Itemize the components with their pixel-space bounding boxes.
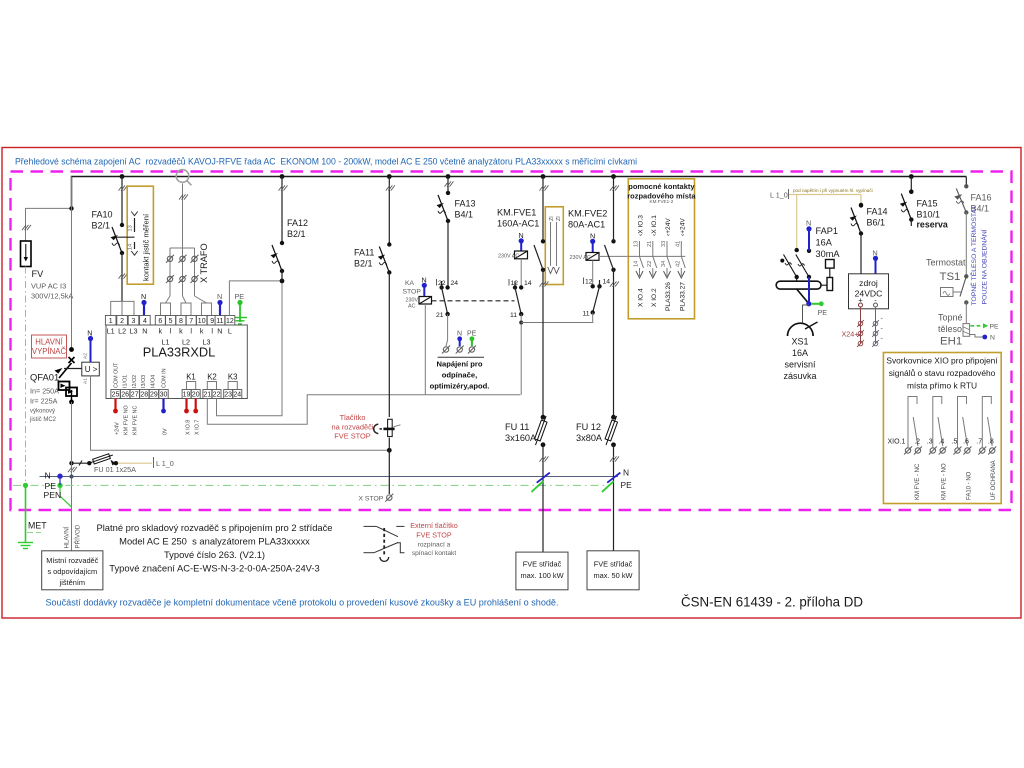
svg-text:UF OCHRANA: UF OCHRANA (991, 460, 997, 500)
wire terminal 12 voltage tap (229, 279, 284, 316)
svg-text:.3: .3 (927, 439, 933, 446)
svg-text:Topné: Topné (938, 313, 963, 323)
breaker FA16 (954, 177, 968, 277)
svg-text:FU 11: FU 11 (505, 422, 529, 432)
svg-text:‹X IO.3: ‹X IO.3 (638, 215, 645, 236)
svg-text:+24V: +24V (114, 422, 120, 435)
svg-text:FVE střídač: FVE střídač (594, 560, 633, 569)
XIO contact pair 5-6 (958, 397, 968, 448)
svg-text:KM FVE NO: KM FVE NO (124, 405, 130, 435)
measuring point circle (176, 170, 191, 186)
svg-text:28: 28 (140, 392, 148, 399)
XIO contact pair 7-8 (982, 397, 992, 448)
svg-text:U >: U > (85, 365, 98, 374)
svg-text:Model AC E 250 s analyzátorem: Model AC E 250 s analyzátorem PLA33xxxxx (119, 536, 310, 547)
svg-text:.2: .2 (914, 439, 920, 446)
wire FA11 to stop button (388, 273, 390, 418)
svg-text:N: N (422, 276, 427, 285)
svg-text:Přehledové schéma zapojení AC: Přehledové schéma zapojení AC rozvaděčů … (15, 157, 637, 168)
svg-text:FA11: FA11 (354, 248, 374, 258)
svg-text:230V AC: 230V AC (570, 255, 591, 261)
svg-text:X STOP: X STOP (359, 496, 384, 503)
svg-text:PE: PE (467, 331, 477, 338)
svg-text:7: 7 (189, 318, 193, 325)
svg-text:A1: A1 (83, 378, 89, 384)
svg-text:FA10: FA10 (92, 210, 113, 220)
svg-text:16A: 16A (816, 238, 833, 248)
svg-text:VUP AC I3: VUP AC I3 (31, 282, 66, 291)
svg-text:.8: .8 (988, 439, 994, 446)
svg-text:EH1: EH1 (940, 336, 962, 348)
svg-text:L 1_0: L 1_0 (770, 191, 788, 200)
svg-text:9: 9 (210, 318, 214, 325)
L1_0 net feed (770, 188, 873, 250)
svg-text:QFA01: QFA01 (30, 372, 59, 383)
svg-text:rozpínací a: rozpínací a (418, 542, 451, 549)
svg-text:4: 4 (143, 318, 147, 325)
contactor KM.FVE2 main contact (605, 177, 620, 418)
svg-text:FA15: FA15 (917, 199, 938, 209)
svg-text:FU 12: FU 12 (576, 422, 601, 432)
terminal numbers row bottom (112, 392, 242, 399)
svg-text:B2/1: B2/1 (287, 229, 306, 239)
svg-text:22: 22 (438, 280, 446, 287)
svg-text:Tlačítko: Tlačítko (340, 413, 366, 422)
svg-text:FA10 - NO: FA10 - NO (966, 471, 972, 500)
FA14 label (867, 207, 888, 228)
svg-text:N: N (217, 327, 222, 336)
svg-text:L1: L1 (107, 327, 115, 336)
analyzer PLA33RXDL body (106, 325, 247, 399)
svg-text:42: 42 (675, 261, 681, 267)
cable fuse FU 01 (68, 453, 136, 474)
analyzer IO terminal names rotated (114, 362, 168, 388)
svg-text:X IO.8: X IO.8 (185, 420, 191, 435)
N tap to inverter 1 (537, 473, 550, 483)
svg-text:těleso: těleso (938, 324, 962, 334)
N terminal stub at terminal 11 (217, 292, 223, 316)
junction at stop chain (387, 438, 392, 495)
svg-text:Zl: Zl (549, 216, 555, 221)
PEN split (44, 479, 72, 507)
svg-text:L3: L3 (130, 327, 138, 336)
interlock box (545, 207, 563, 285)
kontakt jistic mereni box (117, 186, 154, 284)
type description text (96, 522, 332, 574)
svg-text:Místní rozvaděč: Místní rozvaděč (46, 556, 98, 565)
title text (15, 157, 637, 168)
svg-text:Ir= 225A: Ir= 225A (30, 397, 58, 406)
svg-text:In= 250A: In= 250A (30, 387, 59, 396)
contactor KM.FVE1 coil (497, 208, 539, 288)
FA10 label (92, 210, 113, 231)
breaker FA14 (850, 203, 864, 274)
svg-text:N: N (45, 471, 51, 481)
FA11 label (354, 248, 374, 269)
X24 terminal strip (842, 307, 884, 347)
heating element EH1 (938, 303, 999, 348)
svg-text:12: 12 (511, 280, 519, 287)
svg-text:X TRAFO: X TRAFO (199, 243, 209, 283)
svg-text:‹+24V: ‹+24V (679, 218, 686, 236)
X IO.7 stub terminal 20 (193, 399, 198, 414)
svg-text:Externí tlačítko: Externí tlačítko (410, 521, 458, 530)
svg-text:HLAVNÍ: HLAVNÍ (64, 526, 71, 548)
svg-text:11: 11 (216, 318, 223, 325)
KM.FVE1 aux contact 12-11 (509, 279, 532, 395)
aux contact column +24V PLA33.26 (661, 218, 672, 311)
HLAVNI PRIVOD labels (64, 524, 82, 548)
FA12 label (287, 218, 308, 239)
svg-text:K3: K3 (228, 373, 238, 382)
svg-text:ČSN-EN 61439 - 2. příloha DD: ČSN-EN 61439 - 2. příloha DD (681, 595, 863, 610)
stop pushbutton on panel (374, 419, 401, 436)
svg-text:B6/1: B6/1 (867, 218, 886, 228)
svg-text:K2: K2 (207, 373, 217, 382)
svg-text:‹+24V: ‹+24V (665, 218, 672, 236)
svg-text:s odpovídajícm: s odpovídajícm (47, 567, 97, 576)
FA15 label (917, 199, 948, 230)
XIO terminals (904, 447, 996, 455)
svg-text:33: 33 (661, 241, 667, 247)
svg-text:.7: .7 (976, 439, 982, 446)
heater circuit note rotated (969, 205, 989, 305)
svg-text:pomocné kontakty: pomocné kontakty (628, 182, 695, 191)
svg-text:21: 21 (436, 312, 444, 319)
svg-text:spínací kontakt: spínací kontakt (412, 550, 457, 557)
FAP1 label (816, 226, 841, 259)
svg-text:KM.FVE1: KM.FVE1 (497, 208, 536, 218)
svg-text:FAP1: FAP1 (816, 226, 838, 236)
svg-text:FA14: FA14 (867, 207, 888, 217)
svg-text:PE: PE (818, 308, 828, 317)
svg-text:max. 100 kW: max. 100 kW (520, 571, 563, 580)
optimizer supply terminals (438, 331, 484, 358)
svg-text:STOP: STOP (403, 289, 422, 296)
svg-text:Napájení pro: Napájení pro (437, 360, 483, 369)
main incomer wire (71, 177, 73, 350)
svg-text:jistič MC2: jistič MC2 (29, 417, 57, 423)
svg-text:.5: .5 (952, 439, 958, 446)
svg-text:3x160A: 3x160A (505, 433, 537, 443)
svg-text:24: 24 (233, 392, 241, 399)
undervoltage release U> (64, 362, 99, 376)
svg-text:KM.FVE1-2: KM.FVE1-2 (650, 199, 674, 204)
svg-text:K1: K1 (186, 373, 196, 382)
breaker FA12 (271, 177, 288, 282)
wire QFA01 to PEN (71, 402, 73, 551)
svg-text:N: N (142, 327, 147, 336)
svg-text:‹X IO.1: ‹X IO.1 (651, 215, 658, 236)
svg-text:N: N (806, 219, 811, 228)
svg-text:14: 14 (524, 280, 532, 287)
svg-text:30: 30 (160, 392, 168, 399)
svg-text:X24+: X24+ (842, 330, 859, 339)
svg-text:FVE STOP: FVE STOP (416, 531, 452, 540)
svg-text:zdroj: zdroj (859, 278, 878, 288)
X IO.8 stub terminal 19 (184, 399, 189, 414)
PE distribution bus (13, 481, 608, 491)
FA13 label (455, 199, 476, 220)
svg-text:26: 26 (121, 392, 129, 399)
svg-text:VYPÍNAČ: VYPÍNAČ (32, 347, 67, 356)
svg-text:KM FVE NC: KM FVE NC (133, 406, 139, 435)
svg-text:16A: 16A (792, 348, 808, 358)
fuse FU 11 (505, 415, 549, 552)
svg-text:I4/O4: I4/O4 (150, 375, 156, 388)
svg-text:PLA33.26: PLA33.26 (665, 282, 672, 311)
svg-text:300V/12,5kA: 300V/12,5kA (31, 292, 73, 301)
svg-text:FV: FV (32, 269, 45, 279)
svg-text:N: N (217, 292, 222, 301)
contactor KM.FVE1 main contact (534, 177, 549, 418)
svg-text:COM IN: COM IN (162, 368, 168, 388)
svg-text:11: 11 (510, 312, 517, 319)
svg-text:pod napětím i při vypnutém hl.: pod napětím i při vypnutém hl. vypínači (793, 188, 873, 193)
svg-text:I1/O1: I1/O1 (123, 375, 129, 388)
+24V stub terminal 25 (113, 399, 118, 414)
bus junction nodes (120, 174, 914, 179)
svg-text:80A-AC1: 80A-AC1 (568, 220, 605, 230)
terminal name labels (107, 327, 232, 347)
surge arrester FV (21, 206, 74, 266)
XIO contact pair 3-4 (933, 397, 943, 448)
PE tap to inverter 1 (532, 481, 544, 492)
Napajeni pro odpinace label (430, 360, 490, 391)
svg-text:Platné pro skladový rozvaděč s: Platné pro skladový rozvaděč s připojení… (96, 522, 332, 533)
wire terminal 22 to FA12 (217, 281, 283, 416)
svg-text:odpínače,: odpínače, (442, 371, 477, 380)
delivery note blue (46, 598, 559, 608)
svg-text:5: 5 (169, 318, 173, 325)
svg-text:34: 34 (661, 261, 667, 267)
analyzer terminal row top (105, 316, 234, 326)
svg-text:11: 11 (582, 311, 589, 318)
svg-text:KM.FVE2: KM.FVE2 (568, 209, 607, 219)
svg-text:PEN: PEN (44, 490, 62, 500)
svg-text:L2: L2 (118, 327, 126, 336)
svg-text:jištěním: jištěním (59, 578, 85, 587)
svg-text:PLA33.27: PLA33.27 (679, 282, 686, 311)
analyzer input terminal brackets (111, 296, 212, 316)
svg-text:N: N (990, 335, 995, 342)
svg-text:12: 12 (585, 279, 593, 286)
svg-text:30mA: 30mA (816, 249, 841, 259)
svg-text:X IO.2: X IO.2 (651, 288, 658, 307)
svg-text:FA16: FA16 (971, 193, 992, 203)
svg-text:AC: AC (408, 304, 416, 310)
local switchboard box (42, 551, 103, 590)
N tap to inverter 2 (607, 468, 629, 483)
svg-text:Svorkovnice XIO pro připojení: Svorkovnice XIO pro připojení (886, 356, 998, 366)
QFA01 labels (29, 372, 59, 424)
svg-text:PE: PE (235, 292, 245, 301)
svg-text:B2/1: B2/1 (354, 259, 373, 269)
svg-text:N: N (457, 331, 462, 338)
aux contact column +24V PLA33.27 (675, 218, 686, 311)
breaker QFA01 (55, 347, 78, 404)
inverter box FVE stridac 100kW (516, 552, 568, 590)
Tlacitko na rozvadeci FVE STOP label (332, 413, 374, 441)
aux contact column X IO.1 (647, 215, 658, 307)
XIO signal labels rotated (915, 460, 997, 500)
svg-text:N: N (141, 292, 146, 301)
svg-text:23: 23 (224, 392, 232, 399)
svg-text:TS1: TS1 (940, 271, 961, 283)
cable mark on FV wire (22, 225, 31, 230)
FV label (31, 269, 73, 301)
svg-text:KM FVE - NC: KM FVE - NC (915, 463, 921, 500)
svg-text:22: 22 (213, 392, 221, 399)
svg-text:I3/O3: I3/O3 (141, 375, 147, 388)
PE tap at socket (806, 301, 827, 317)
svg-text:PLA33RXDL: PLA33RXDL (143, 345, 216, 360)
svg-text:XS1: XS1 (791, 337, 808, 347)
svg-text:0V: 0V (162, 428, 168, 435)
svg-text:k: k (200, 327, 204, 336)
svg-text:XIO.1: XIO.1 (888, 439, 906, 446)
KA STOP contact 22-21 (436, 279, 458, 346)
svg-text:B2/1: B2/1 (92, 221, 111, 231)
0V stub terminal 30 (161, 399, 166, 414)
svg-text:10: 10 (198, 318, 206, 325)
svg-text:2: 2 (120, 318, 124, 325)
svg-text:FU 01 1x25A: FU 01 1x25A (94, 465, 136, 474)
svg-text:14: 14 (603, 279, 611, 286)
svg-text:29: 29 (150, 392, 158, 399)
aux contact column X IO.3 (634, 215, 645, 307)
svg-text:FVE STOP: FVE STOP (334, 432, 370, 441)
terminal X STOP (359, 494, 394, 503)
PE terminal with earth (233, 292, 247, 324)
svg-text:.4: .4 (938, 439, 944, 446)
svg-text:servisní: servisní (784, 360, 816, 370)
svg-text:41: 41 (675, 241, 681, 247)
svg-text:L 1_0: L 1_0 (156, 459, 174, 468)
svg-text:X IO.4: X IO.4 (638, 288, 645, 307)
main bus L1 (72, 177, 967, 209)
svg-text:21: 21 (647, 241, 653, 247)
svg-text:12: 12 (226, 318, 234, 325)
svg-text:160A-AC1: 160A-AC1 (497, 219, 539, 229)
magenta dashed boundary (11, 172, 1012, 511)
svg-text:19: 19 (183, 392, 191, 399)
terminal numbers row top (109, 318, 234, 325)
border frame (2, 148, 1021, 619)
svg-text:KM FVE - NO: KM FVE - NO (942, 463, 948, 500)
svg-text:kontakt jistič měření: kontakt jistič měření (142, 213, 151, 281)
external stop button label (410, 521, 458, 557)
svg-text:FA13: FA13 (455, 199, 476, 209)
svg-text:signálů o stavu rozpadového: signálů o stavu rozpadového (889, 368, 996, 378)
svg-text:8: 8 (179, 318, 183, 325)
breaker FA13 (437, 177, 454, 288)
svg-text:6: 6 (158, 318, 162, 325)
svg-text:13: 13 (128, 225, 134, 231)
KM.FVE2 aux contact 12-11 (521, 278, 610, 323)
svg-text:L: L (228, 327, 232, 336)
svg-text:max. 50 kW: max. 50 kW (593, 571, 632, 580)
inverter box FVE stridac 50kW (587, 551, 639, 590)
relay bracket K1 (186, 373, 196, 391)
analyzer output labels rotated (114, 405, 200, 435)
service socket XS1 (783, 305, 817, 381)
wire terminal 21 to coil loop (207, 395, 520, 425)
RCD FAP1 (776, 248, 834, 304)
svg-text:Typové číslo 263. (V2.1): Typové číslo 263. (V2.1) (164, 549, 265, 560)
svg-text:KA: KA (405, 280, 415, 287)
svg-text:13: 13 (634, 241, 640, 247)
wire U> to FVE STOP chain (91, 376, 390, 450)
svg-text:B10/1: B10/1 (917, 210, 941, 220)
relay bracket K3 (228, 373, 238, 391)
svg-text:14: 14 (128, 244, 134, 250)
svg-text:FA12: FA12 (287, 218, 308, 228)
current transformer X TRAFO (166, 184, 209, 297)
breaker FA10 (111, 177, 125, 302)
auxiliary contacts box pomocne kontakty (627, 179, 696, 319)
standard reference (681, 595, 863, 610)
svg-text:PE: PE (621, 480, 633, 490)
svg-text:14: 14 (634, 261, 640, 267)
FAP1 N pole (806, 219, 812, 304)
N feed to U> coil (83, 329, 94, 385)
svg-text:I2/O2: I2/O2 (132, 375, 138, 388)
svg-text:N: N (87, 329, 92, 338)
power supply zdroj 24VDC (849, 249, 889, 309)
external stop button symbol (364, 526, 405, 561)
svg-text:COM OUT: COM OUT (114, 362, 120, 388)
svg-text:Termostat: Termostat (926, 258, 966, 268)
svg-text:27: 27 (131, 392, 139, 399)
contactor KM.FVE2 coil (568, 209, 628, 287)
N distribution bus (40, 471, 619, 481)
svg-text:N: N (623, 468, 629, 478)
svg-text:PE: PE (990, 324, 1000, 331)
svg-text:k: k (159, 327, 163, 336)
svg-text:24: 24 (451, 280, 459, 287)
PE tap to inverter 2 (602, 480, 632, 492)
FA16 label (971, 193, 992, 214)
XIO contact pair 1-2 (908, 397, 918, 448)
N terminal stub at analyzer input (141, 292, 147, 316)
svg-text:na rozvaděči: na rozvaděči (332, 423, 374, 432)
svg-text:POUZE NA OBJEDNÁNÍ: POUZE NA OBJEDNÁNÍ (980, 229, 989, 304)
svg-text:230V AC: 230V AC (498, 254, 519, 260)
svg-text:1: 1 (109, 318, 113, 325)
svg-text:výkonový: výkonový (30, 409, 55, 415)
mechanical link dashed (432, 300, 515, 302)
relay KA STOP coil (403, 276, 432, 395)
svg-text:N: N (873, 249, 878, 258)
MET earthing (18, 485, 47, 548)
thermostat TS1 (926, 258, 969, 305)
cable marks FA10 (119, 185, 128, 278)
svg-text:k: k (179, 327, 183, 336)
HLAVNI VYPINAC label (32, 335, 67, 358)
svg-text:zásuvka: zásuvka (783, 371, 816, 381)
svg-text:.6: .6 (963, 439, 969, 446)
fuse FU 12 (576, 415, 619, 551)
svg-text:X IO.7: X IO.7 (195, 420, 201, 435)
svg-text:TOPNÉ TĚLESO A TERMOSTAT: TOPNÉ TĚLESO A TERMOSTAT (969, 205, 978, 305)
svg-text:Typové značení AC-E-WS-N-3-2-0: Typové značení AC-E-WS-N-3-2-0-0A-250A-2… (109, 563, 320, 574)
analyzer terminal row bottom (111, 390, 242, 399)
svg-text:3x80A: 3x80A (576, 433, 603, 443)
svg-text:Součástí dodávky rozvaděče je: Součástí dodávky rozvaděče je kompletní … (46, 598, 559, 608)
svg-text:25: 25 (112, 392, 120, 399)
svg-text:A2: A2 (83, 353, 89, 359)
